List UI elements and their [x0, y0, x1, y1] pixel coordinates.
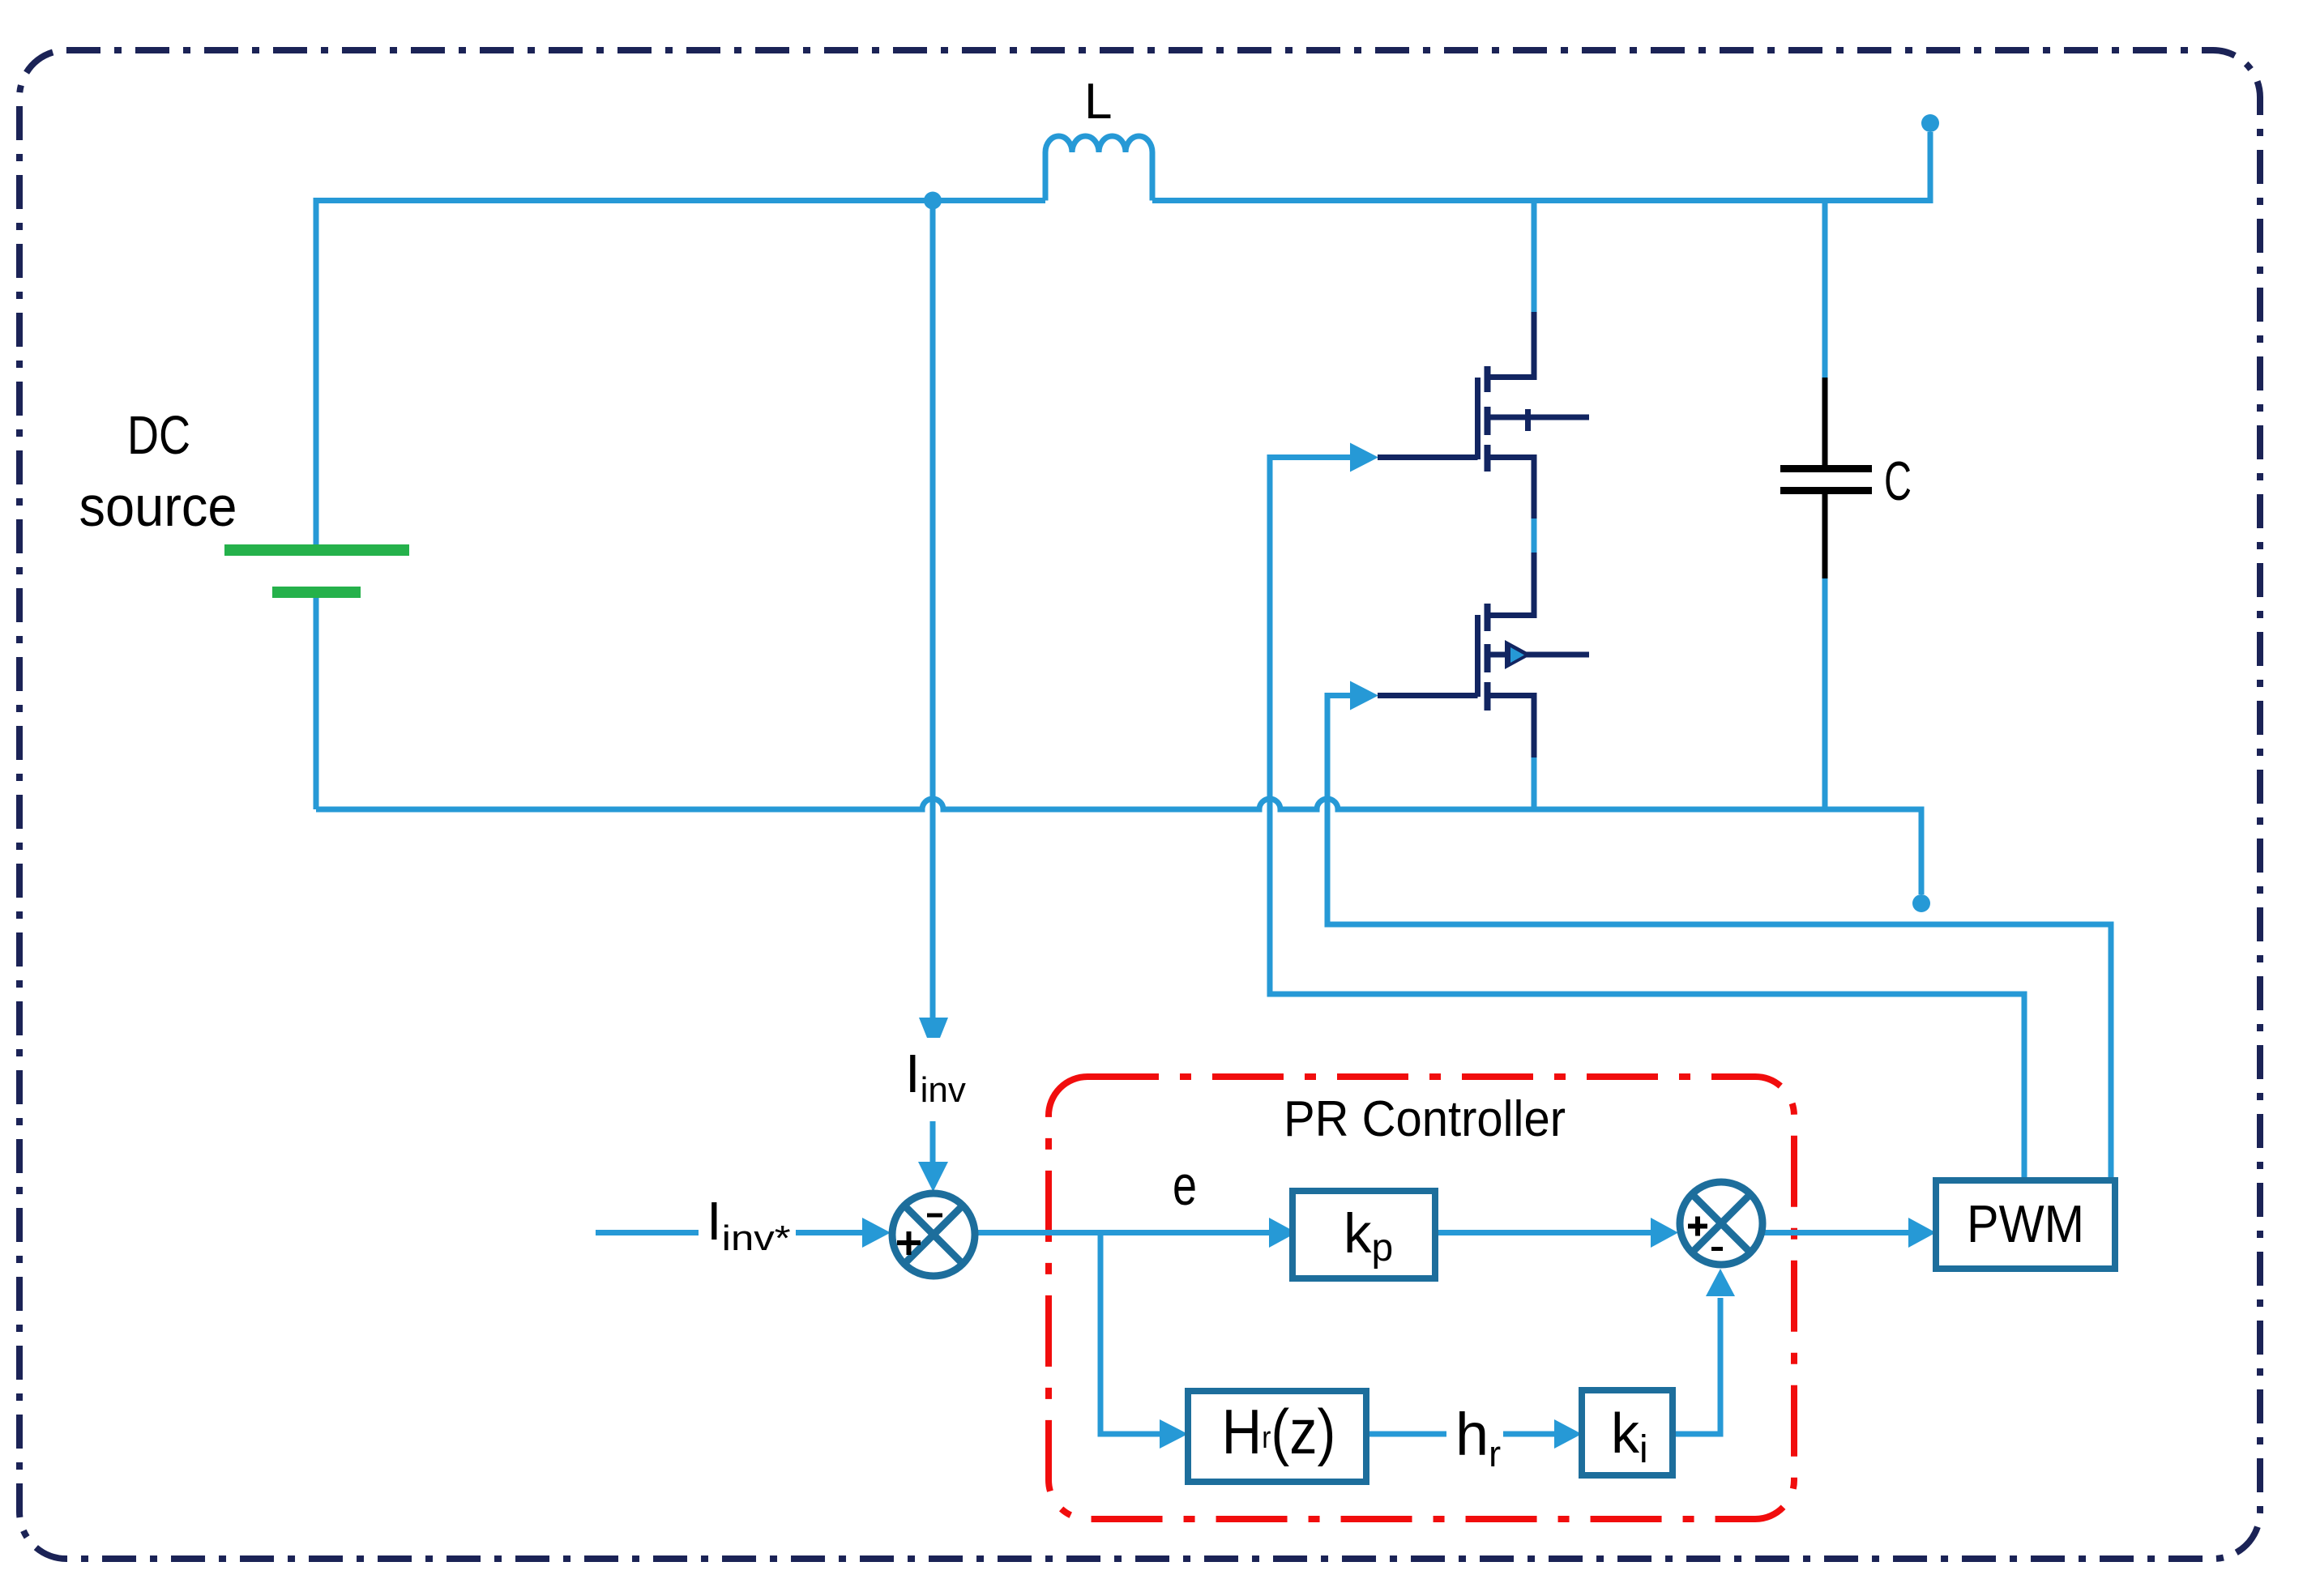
svg-text:Hr(z): Hr(z) — [1222, 1396, 1336, 1467]
svg-text:source: source — [79, 475, 237, 538]
svg-text:PR Controller: PR Controller — [1284, 1091, 1566, 1147]
svg-text:C: C — [1884, 450, 1912, 512]
svg-text:e: e — [1173, 1154, 1197, 1217]
svg-text:DC: DC — [127, 405, 190, 466]
svg-text:L: L — [1084, 74, 1112, 130]
svg-text:PWM: PWM — [1967, 1194, 2084, 1253]
